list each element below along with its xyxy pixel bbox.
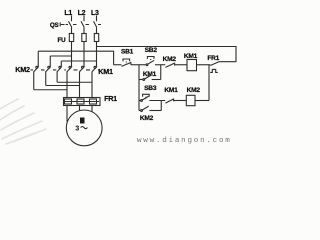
svg-text:KM1: KM1 xyxy=(98,67,113,76)
svg-text:FR1: FR1 xyxy=(104,94,117,103)
svg-text:L2: L2 xyxy=(78,10,86,17)
svg-text:www.diangon.com: www.diangon.com xyxy=(137,137,232,145)
svg-text:SB3: SB3 xyxy=(144,85,157,92)
svg-text:3: 3 xyxy=(75,124,79,133)
svg-text:L1: L1 xyxy=(64,10,72,17)
svg-text:FR1: FR1 xyxy=(207,55,219,62)
svg-text:L3: L3 xyxy=(91,10,99,17)
svg-text:KM1: KM1 xyxy=(143,71,157,78)
svg-text:SB2: SB2 xyxy=(145,47,158,54)
svg-text:KM2: KM2 xyxy=(15,65,30,74)
svg-text:SB1: SB1 xyxy=(121,49,134,56)
svg-text:KM1: KM1 xyxy=(164,87,178,94)
svg-text:QS: QS xyxy=(50,22,59,29)
svg-text:KM1: KM1 xyxy=(184,53,198,60)
svg-text:KM2: KM2 xyxy=(163,56,177,63)
svg-text:KM2: KM2 xyxy=(187,87,201,94)
svg-text:KM2: KM2 xyxy=(140,115,154,122)
svg-text:FU: FU xyxy=(58,37,67,44)
